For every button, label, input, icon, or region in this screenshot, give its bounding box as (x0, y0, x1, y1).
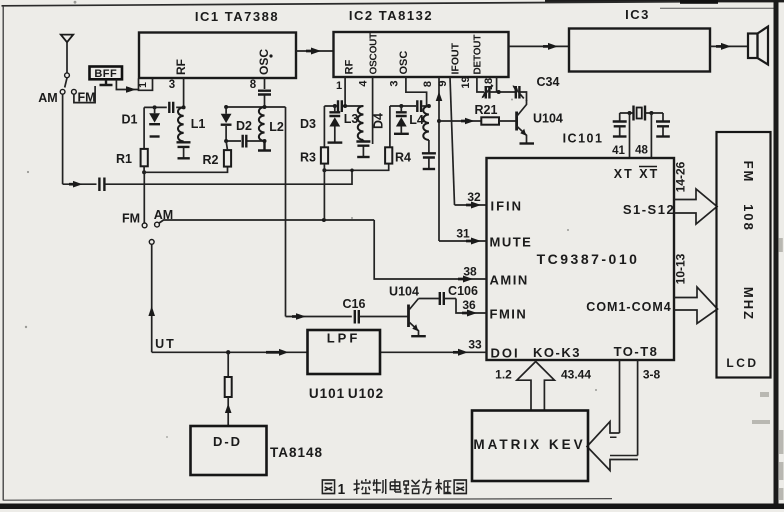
wire pin8 junction to R21 (437, 118, 481, 125)
frame border top (2, 2, 701, 6)
AM contact (band switch) (154, 208, 173, 227)
svg-text:RF: RF (174, 59, 188, 75)
tank D4/L4 top wire (390, 100, 431, 112)
FMIN pin 36 wire (456, 298, 527, 322)
wire FM contact to BFF (74, 86, 95, 103)
svg-text:R3: R3 (300, 151, 316, 165)
svg-text:32: 32 (467, 190, 481, 204)
svg-text:U101: U101 (309, 386, 345, 401)
caption char 控 (354, 479, 371, 494)
tank left leg to R4 (389, 106, 391, 147)
bus arrow S1-S12 to LCD (674, 161, 718, 224)
FM feed line down from L2 tank (285, 107, 287, 317)
svg-text:U104: U104 (533, 112, 563, 126)
svg-text:108: 108 (741, 204, 756, 232)
svg-text:S1-S12: S1-S12 (623, 202, 675, 217)
MATRIX KEY block (472, 411, 588, 482)
svg-text:R2: R2 (203, 153, 219, 167)
svg-text:FM: FM (122, 212, 140, 226)
pin 19 of IC2 (460, 76, 484, 92)
varactor diode D3 (300, 106, 342, 143)
wire IC1 to IC2 (296, 48, 334, 55)
svg-text:D4: D4 (372, 113, 386, 129)
svg-text:UT: UT (155, 337, 176, 351)
svg-text:3: 3 (169, 79, 175, 91)
svg-text:48: 48 (635, 145, 648, 157)
pin 9 of IC2 (437, 77, 455, 205)
svg-text:FM: FM (741, 161, 756, 184)
resistor to D-D (225, 352, 232, 426)
wire IC2 to IC3 (509, 43, 570, 50)
svg-text:AM: AM (38, 91, 57, 105)
svg-text:R1: R1 (116, 152, 132, 166)
svg-text:RF: RF (344, 60, 356, 75)
tank D2/L2 top wire (224, 105, 285, 109)
bus arrow COM1-COM4 to LCD (674, 253, 718, 323)
varactor diode D2 (221, 107, 252, 141)
TO-T8 line A (619, 360, 621, 433)
frame border top right segment (660, 7, 776, 9)
wire AM contact to AMIN riser (159, 218, 374, 223)
bus arrow MATRIX to KO-K3 (495, 362, 591, 411)
svg-text:D3: D3 (300, 117, 316, 131)
wire IC3 to speaker (710, 43, 748, 50)
resistor R1 (116, 149, 148, 166)
scan edge bottom bar (0, 504, 784, 510)
tank left leg to R3 (323, 106, 325, 147)
svg-text:10-13: 10-13 (674, 253, 688, 284)
svg-text:D2: D2 (236, 119, 252, 133)
frame border bottom (3, 499, 612, 501)
DOI pin 33 wire (380, 338, 520, 361)
svg-text:R4: R4 (395, 151, 411, 165)
varactor diode D4 (372, 106, 409, 134)
pin 8 of IC2 (422, 77, 442, 241)
capacitor below L1 (177, 142, 191, 158)
svg-text:1: 1 (336, 80, 342, 92)
IC1 block TA7388 (139, 9, 296, 78)
svg-text:9: 9 (437, 80, 449, 86)
scan edge top bar right (545, 0, 784, 2)
scan edge right bar (774, 2, 779, 505)
FM contact (top switch) (72, 89, 96, 104)
svg-text:38: 38 (463, 265, 477, 279)
svg-text:FMIN: FMIN (490, 307, 528, 322)
R3 bottom junction row to R4 (322, 164, 388, 173)
pin 3 of IC1 (169, 78, 184, 107)
svg-text:4: 4 (358, 80, 370, 87)
svg-text:TA8148: TA8148 (270, 445, 323, 460)
scan noise specks (25, 1, 597, 438)
svg-text:DETOUT: DETOUT (473, 35, 484, 75)
TC9387-010 IC block (487, 158, 675, 360)
LCD display block (717, 132, 771, 378)
wire AM contact down to long AM wire (62, 94, 64, 184)
svg-text:TC9387-010: TC9387-010 (537, 251, 640, 267)
crystal oscillator circuit (620, 111, 663, 115)
svg-text:8: 8 (250, 79, 257, 91)
svg-text:IC101: IC101 (563, 132, 604, 146)
series capacitor C in D1 tank (169, 102, 173, 113)
ground stub below L2 (258, 141, 271, 151)
svg-text:U104: U104 (389, 285, 419, 299)
caption 图1 (322, 480, 334, 494)
inductor L1 (178, 107, 205, 141)
svg-text:DOI: DOI (491, 346, 520, 361)
inductor L2 (259, 107, 284, 141)
svg-text:OSC: OSC (257, 49, 271, 75)
AMIN pin 38 wire (374, 220, 529, 288)
svg-text:41: 41 (612, 145, 625, 157)
IFIN pin 32 wire (455, 190, 524, 214)
svg-text:IC3: IC3 (625, 7, 650, 22)
ground stub below BFF (100, 80, 113, 86)
figure caption (322, 479, 466, 499)
speaker (748, 27, 768, 65)
svg-text:LPF: LPF (327, 331, 361, 346)
svg-text:IFIN: IFIN (491, 199, 524, 214)
wire BFF to pin 1 of IC1 (116, 80, 138, 93)
svg-text:19: 19 (460, 76, 472, 88)
IC3 block (569, 7, 710, 72)
svg-text:D-D: D-D (213, 434, 242, 449)
varactor diode D1 (122, 107, 160, 136)
svg-text:L4: L4 (409, 113, 424, 127)
crystal X1 (634, 106, 646, 121)
pin label OSC of IC1 (257, 49, 273, 75)
svg-text:L1: L1 (191, 117, 206, 131)
pin 48 wire (635, 113, 651, 158)
bus arrow stem channel lines (610, 437, 638, 455)
pin 8 of IC1 (250, 78, 265, 91)
svg-text:31: 31 (456, 227, 470, 241)
capacitor below L4 (422, 140, 436, 169)
svg-text:OSCOUT: OSCOUT (369, 33, 380, 75)
resistor R2 (203, 141, 232, 167)
wire R1 bottom row to R2 (142, 166, 227, 174)
IC2 block TA8132 (334, 8, 509, 77)
svg-text:C106: C106 (448, 284, 478, 298)
svg-text:L2: L2 (269, 120, 284, 134)
antenna (61, 35, 73, 73)
load capacitor right (656, 113, 670, 137)
svg-text:COM1-COM4: COM1-COM4 (586, 300, 671, 314)
svg-text:IFOUT: IFOUT (450, 42, 462, 74)
bus arrow into MATRIX (587, 422, 638, 471)
svg-text:IC2 TA8132: IC2 TA8132 (349, 8, 433, 23)
svg-text:D1: D1 (122, 113, 138, 127)
svg-text:TO-T8: TO-T8 (614, 344, 659, 359)
svg-text:OSC: OSC (398, 51, 410, 75)
node D1 top (153, 105, 157, 109)
wire R1 junction down to FM contact (143, 172, 145, 223)
svg-text:XT XT: XT XT (614, 167, 659, 181)
inductor L3 (344, 106, 364, 140)
svg-text:MUTE: MUTE (490, 235, 533, 250)
svg-text:IC1 TA7388: IC1 TA7388 (195, 9, 279, 24)
svg-text:36: 36 (462, 298, 476, 312)
svg-text:1.2: 1.2 (495, 368, 512, 382)
svg-text:14-26: 14-26 (674, 161, 688, 192)
caption char 框 (436, 479, 452, 494)
svg-text:MHZ: MHZ (741, 287, 756, 321)
svg-text:KO-K3: KO-K3 (533, 345, 581, 360)
svg-text:1: 1 (338, 481, 346, 498)
caption char 电 (390, 479, 400, 492)
svg-text:C16: C16 (343, 297, 366, 311)
MUTE pin 31 wire (439, 227, 532, 250)
FM contact (band switch) (122, 212, 147, 228)
AM contact (top switch) (38, 89, 65, 105)
svg-text:U102: U102 (348, 386, 384, 401)
switch pole contact (antenna) (65, 73, 70, 88)
svg-text:LCD: LCD (726, 356, 758, 370)
pin 1 of IC2 (336, 77, 345, 106)
capacitor below L3 (356, 140, 370, 157)
transistor U104 (IF buffer) (499, 100, 563, 144)
node L1 top (182, 105, 186, 109)
caption char 图 (second) (454, 480, 466, 494)
svg-text:L3: L3 (344, 112, 359, 126)
svg-text:8: 8 (422, 81, 434, 87)
svg-text:C34: C34 (537, 75, 560, 89)
inductor L4 (409, 106, 429, 140)
capacitor C106 (419, 284, 478, 305)
long AM wire with series capacitor (63, 170, 352, 191)
capacitor at pin 8 of IC1 (258, 91, 271, 107)
caption char 方 (422, 479, 432, 494)
resistor R4 (385, 147, 411, 164)
tank left leg to R1 (143, 107, 145, 148)
C16 coupling path from FM line (286, 297, 409, 324)
svg-text:R21: R21 (475, 103, 498, 117)
pin 18 of IC2 (483, 77, 497, 92)
load capacitor left (613, 113, 627, 137)
resistor R21 (475, 103, 499, 125)
svg-text:BFF: BFF (94, 68, 117, 80)
trimmer capacitor C34 (513, 75, 560, 101)
svg-text:43.44: 43.44 (561, 368, 591, 382)
pin 1 tab of IC1 (137, 79, 153, 91)
trimmer capacitor at pins 19/18 (482, 85, 516, 98)
caption char 路 (404, 480, 420, 494)
D-D converter block (191, 426, 267, 475)
svg-text:3: 3 (389, 80, 401, 86)
svg-text:AMIN: AMIN (490, 273, 529, 288)
pin 4 of IC2 (358, 77, 373, 144)
pin 41 wire (612, 113, 629, 158)
wire R3 junction down to AM row (323, 170, 325, 220)
bottom row of D2 tank with series capacitor (224, 135, 266, 148)
label XT XT-bar (614, 167, 659, 182)
pin 3 of IC2 (389, 77, 427, 106)
LPF block (308, 330, 381, 374)
scan marks right margin (752, 238, 783, 500)
scan smudge top right (680, 0, 718, 4)
svg-text:MATRIX KEV: MATRIX KEV (473, 437, 585, 452)
frame border left (2, 6, 4, 501)
svg-text:1: 1 (137, 82, 149, 88)
tank D1/L1 top wire (144, 106, 184, 108)
tank D3/L3 top wire (324, 100, 363, 112)
BFF bandpass filter box (90, 67, 123, 81)
transistor U104 (FM buffer) (389, 285, 426, 337)
UT wire to LPF (152, 337, 308, 356)
svg-text:3-8: 3-8 (643, 368, 661, 382)
svg-text:33: 33 (468, 338, 482, 352)
resistor R3 (300, 147, 328, 164)
switch pole (band switch) (148, 240, 155, 353)
caption char 制 (373, 479, 386, 494)
TO-T8 line B (637, 360, 639, 456)
